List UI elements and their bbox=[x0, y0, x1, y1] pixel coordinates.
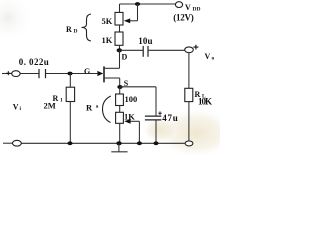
label 5K value bbox=[102, 16, 113, 26]
label 47u bbox=[162, 113, 178, 123]
svg-text:(12V): (12V) bbox=[173, 13, 194, 23]
svg-text:V: V bbox=[205, 52, 211, 61]
label 100 bbox=[125, 94, 138, 104]
svg-text:100: 100 bbox=[125, 94, 138, 104]
label plus polarity of 47u bbox=[158, 111, 162, 115]
svg-text:D: D bbox=[122, 53, 128, 62]
label plus at Vo bbox=[193, 45, 198, 50]
junction node on VDD rail bbox=[135, 2, 140, 6]
label Rs bbox=[86, 103, 99, 113]
transistor V JFET bbox=[97, 50, 119, 87]
wiper arrow of Rs pot bbox=[124, 119, 139, 143]
terminal Vo bbox=[185, 47, 194, 53]
svg-text:V: V bbox=[13, 103, 19, 112]
resistor 1K lower part of RD bbox=[115, 25, 123, 50]
label RL bbox=[195, 90, 207, 100]
terminal VDD bbox=[175, 2, 182, 8]
brace for Rs bbox=[103, 96, 111, 123]
svg-text:DD: DD bbox=[193, 7, 201, 13]
label Vo bbox=[205, 52, 215, 62]
resistor R1 bbox=[66, 74, 74, 144]
svg-text:10u: 10u bbox=[138, 36, 152, 46]
wire source to 47u branch bbox=[120, 87, 156, 116]
wire cap to Vo terminal bbox=[148, 49, 185, 51]
junction node gate bbox=[67, 72, 72, 76]
node D junction bbox=[117, 48, 122, 52]
svg-text:1: 1 bbox=[60, 98, 63, 104]
wire drain node to coupling cap bbox=[120, 49, 144, 51]
svg-text:0. 022u: 0. 022u bbox=[19, 57, 49, 67]
capacitor 47u bbox=[145, 116, 161, 143]
label G bbox=[84, 67, 90, 76]
wiper arrow of 5K bbox=[124, 4, 138, 23]
svg-text:R: R bbox=[66, 25, 72, 34]
svg-text:47u: 47u bbox=[162, 113, 178, 123]
label VDD bbox=[185, 3, 200, 13]
potentiometer 1K lower part of Rs bbox=[116, 106, 124, 144]
label 10u bbox=[138, 36, 152, 46]
wire terminal to input cap bbox=[20, 73, 39, 75]
svg-text:G: G bbox=[84, 67, 90, 76]
label 1K of Rs bbox=[124, 112, 135, 122]
svg-text:D: D bbox=[74, 29, 78, 35]
terminal Vi plus bbox=[12, 71, 20, 77]
label 2M bbox=[44, 101, 56, 111]
terminal Vi minus bbox=[13, 140, 22, 146]
svg-text:2M: 2M bbox=[44, 101, 56, 111]
label (12V) bbox=[173, 13, 194, 23]
node S junction bbox=[117, 85, 122, 89]
wire bottom rail bbox=[21, 142, 185, 144]
svg-text:1K: 1K bbox=[102, 35, 113, 45]
resistor RL bbox=[185, 88, 193, 101]
svg-text:10K: 10K bbox=[198, 97, 212, 107]
svg-text:5K: 5K bbox=[102, 16, 113, 26]
label S bbox=[124, 79, 129, 88]
svg-text:o: o bbox=[212, 56, 215, 62]
label 1K value bbox=[102, 35, 113, 45]
label 0.022u bbox=[19, 57, 49, 67]
wire Vo down to RL bbox=[188, 53, 190, 89]
potentiometer 5K upper part of RD bbox=[115, 4, 123, 25]
junction node R1 at rail bbox=[67, 141, 72, 145]
terminal bottom right bbox=[185, 141, 193, 146]
junction node ground at rail bbox=[116, 141, 121, 145]
resistor 100 upper part of Rs bbox=[116, 87, 124, 106]
capacitor 0.022u bbox=[39, 69, 46, 78]
junction node 47u at rail bbox=[153, 141, 158, 145]
label RD bbox=[66, 25, 78, 35]
wire gate bbox=[46, 73, 98, 75]
svg-text:V: V bbox=[185, 3, 191, 12]
svg-text:R: R bbox=[86, 103, 93, 113]
wire RL to bottom terminal bbox=[188, 102, 190, 141]
wire bottom left stub bbox=[3, 142, 12, 144]
capacitor 10u bbox=[143, 46, 148, 57]
wire VDD supply rail bbox=[120, 3, 177, 5]
label D bbox=[122, 53, 128, 62]
label Vi bbox=[13, 103, 22, 113]
wire input stub and plus bbox=[2, 71, 12, 75]
label 10K bbox=[198, 97, 212, 107]
brace for RD bbox=[82, 14, 92, 41]
label R1 bbox=[53, 94, 64, 104]
junction node wiper at rail bbox=[137, 141, 142, 145]
ground bbox=[111, 143, 127, 152]
